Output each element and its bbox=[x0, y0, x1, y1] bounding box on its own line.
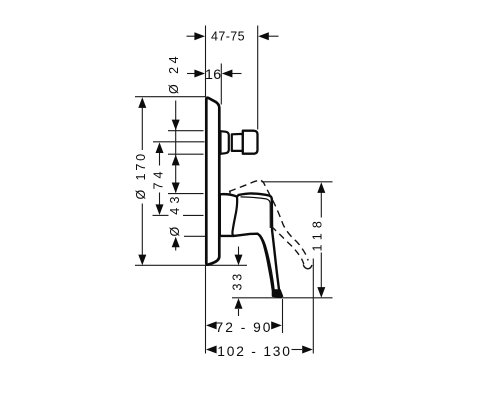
svg-text:102 - 130: 102 - 130 bbox=[217, 344, 292, 359]
dashed handle inner edge bbox=[272, 227, 304, 265]
escutcheon plate (side view) bbox=[206, 98, 219, 265]
dia170 dimension line lower bbox=[141, 204, 143, 257]
dim 16 right tail bbox=[232, 73, 242, 75]
ext line 74 bottom right piece bbox=[183, 214, 204, 216]
dia24/dia43 dimension line bbox=[175, 101, 177, 193]
74 dimension line upper tail bbox=[159, 153, 161, 166]
ext line 102-130 right (dashed foot) bbox=[312, 259, 314, 354]
arrow dia24 bottom bbox=[172, 155, 180, 166]
dim 47-75 right tail bbox=[268, 35, 279, 37]
knob face extension line (47-75 right) bbox=[257, 26, 259, 130]
svg-text:Ø 24: Ø 24 bbox=[167, 53, 181, 94]
118 dimension line lower tail bbox=[320, 253, 322, 288]
dia170 dimension line upper bbox=[141, 107, 143, 150]
dashed handle tick at hub bbox=[229, 191, 231, 193]
118 dimension line upper tail bbox=[320, 193, 322, 218]
svg-text:72 - 90: 72 - 90 bbox=[216, 320, 273, 335]
ext line hub bottom (dia43 bottom) bbox=[184, 235, 205, 237]
svg-text:118: 118 bbox=[310, 216, 324, 252]
dim 47-75 left tail bbox=[187, 35, 196, 37]
handle grip inner chamfer line bbox=[260, 235, 274, 291]
arrow 74 bottom bbox=[156, 204, 164, 215]
arrow dia43 bottom bbox=[172, 237, 180, 248]
ext line 72-90 right (foot) bbox=[282, 299, 284, 333]
ext line knob axis (74 top) bbox=[153, 141, 205, 143]
dashed handle outer edge and grip bbox=[261, 181, 308, 261]
svg-text:33: 33 bbox=[230, 271, 244, 291]
arrow 16 left bbox=[194, 70, 205, 78]
handle silhouette bbox=[220, 193, 281, 297]
dashed handle top edge bbox=[229, 180, 261, 191]
wall extension line bottom bbox=[205, 265, 207, 353]
ext line knob bottom (dia24 bottom) bbox=[168, 153, 204, 155]
ext line foot bottom (33 / 118 bottom) bbox=[232, 297, 333, 299]
handle lever chamfer line bbox=[241, 197, 271, 228]
arrow 33 top bbox=[235, 255, 243, 266]
dashed handle foot hook bbox=[303, 265, 312, 269]
svg-text:74: 74 bbox=[151, 168, 165, 190]
svg-text:47-75: 47-75 bbox=[211, 30, 245, 44]
arrow 102-130 left bbox=[206, 346, 217, 354]
knob base cone bbox=[221, 131, 229, 154]
wall extension line top (47-75 left) bbox=[205, 26, 207, 98]
ext line hub top (dia43 top) bbox=[168, 193, 204, 195]
arrow dia170 bottom bbox=[138, 255, 146, 266]
knob head bbox=[243, 131, 258, 154]
arrow 47-75 right bbox=[258, 32, 269, 40]
arrow 47-75 left bbox=[194, 32, 205, 40]
33 dimension upper tail bbox=[238, 247, 240, 256]
arrow 118 bottom bbox=[317, 287, 325, 298]
arrow dia24 top bbox=[172, 120, 180, 131]
arrow dia170 top bbox=[138, 97, 146, 108]
dim 102-130 line piece bbox=[292, 349, 303, 351]
arrow 72-90 left bbox=[206, 321, 217, 329]
svg-text:Ø 43: Ø 43 bbox=[168, 192, 182, 236]
ext line 118 top bbox=[262, 181, 333, 183]
dim 16 left tail bbox=[187, 73, 196, 75]
33 dimension lower tail bbox=[238, 309, 240, 316]
arrow 33 bottom bbox=[235, 298, 243, 309]
knob neck bbox=[232, 134, 243, 151]
74 dimension line lower tail bbox=[159, 193, 161, 206]
ext line plate bottom + 33 top bbox=[135, 264, 247, 266]
svg-text:16: 16 bbox=[205, 67, 222, 83]
arrow 72-90 right bbox=[271, 321, 282, 329]
svg-text:Ø 170: Ø 170 bbox=[134, 151, 148, 200]
arrow 102-130 right bbox=[302, 346, 313, 354]
handle hub front edge bbox=[232, 197, 237, 236]
ext line plate top (dia170 top) bbox=[135, 96, 206, 98]
dia43 lower arrow tail bbox=[175, 246, 177, 251]
arrow 118 top bbox=[317, 182, 325, 193]
arrow dia43 top bbox=[172, 183, 180, 194]
arrow 74 top bbox=[156, 142, 164, 153]
plate front extension line (16 right) bbox=[220, 64, 222, 105]
ext line 74 bottom left piece bbox=[153, 214, 169, 216]
arrow 16 right bbox=[222, 70, 233, 78]
ext line knob top (dia24 top) bbox=[168, 130, 204, 132]
handle foot (solid) bbox=[273, 289, 283, 297]
